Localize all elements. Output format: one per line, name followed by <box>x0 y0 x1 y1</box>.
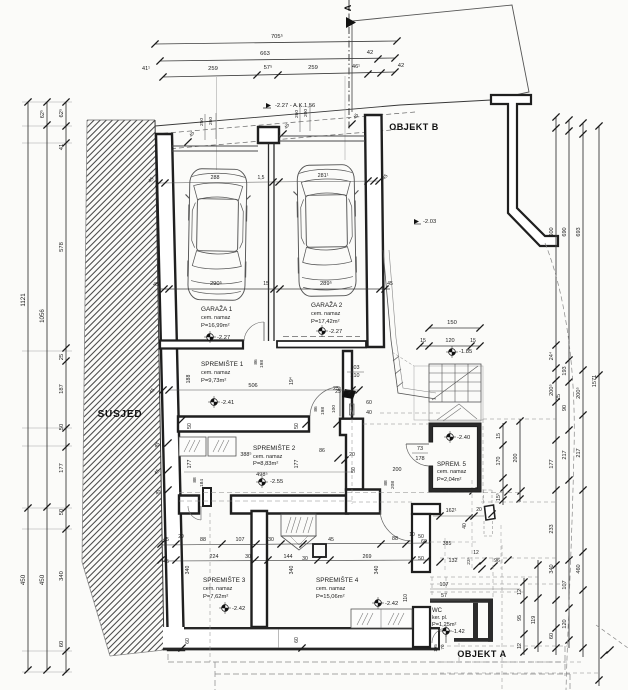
svg-text:P=7,62m²: P=7,62m² <box>203 594 228 600</box>
svg-text:OBJEKT A: OBJEKT A <box>457 649 506 659</box>
svg-text:132: 132 <box>449 558 458 564</box>
svg-text:40: 40 <box>366 410 372 416</box>
svg-text:200: 200 <box>303 109 309 117</box>
svg-text:25: 25 <box>59 354 65 360</box>
svg-text:19⁴: 19⁴ <box>289 377 295 385</box>
svg-text:50: 50 <box>59 509 65 515</box>
svg-text:340: 340 <box>185 566 191 575</box>
svg-text:45: 45 <box>163 559 169 565</box>
svg-text:-2.40: -2.40 <box>457 435 470 441</box>
svg-text:45: 45 <box>153 282 159 288</box>
svg-text:cem. namaz: cem. namaz <box>201 315 231 321</box>
svg-text:289⁵: 289⁵ <box>320 280 333 287</box>
svg-text:50: 50 <box>294 423 300 429</box>
svg-text:224: 224 <box>210 554 219 560</box>
svg-text:60: 60 <box>294 637 300 643</box>
svg-text:200⁵: 200⁵ <box>548 384 555 396</box>
svg-text:250: 250 <box>199 118 205 126</box>
svg-text:70: 70 <box>440 644 445 650</box>
svg-text:450: 450 <box>20 574 27 585</box>
svg-text:177: 177 <box>187 460 193 469</box>
svg-text:42: 42 <box>398 63 404 69</box>
svg-text:10: 10 <box>409 532 415 538</box>
svg-text:340: 340 <box>59 571 65 581</box>
svg-text:OBJEKT B: OBJEKT B <box>389 122 439 132</box>
svg-text:193: 193 <box>562 366 568 375</box>
svg-text:ker. pl.: ker. pl. <box>432 615 447 621</box>
svg-text:P=17,42m²: P=17,42m² <box>311 319 340 325</box>
svg-text:-2.03: -2.03 <box>423 219 436 225</box>
svg-text:178: 178 <box>415 456 424 462</box>
svg-text:15: 15 <box>496 433 502 439</box>
svg-text:SPREMIŠTE 4: SPREMIŠTE 4 <box>316 575 359 584</box>
svg-text:cem. namaz: cem. namaz <box>311 311 341 317</box>
svg-text:62⁵: 62⁵ <box>58 108 65 117</box>
svg-text:45: 45 <box>387 281 393 287</box>
svg-text:46¹: 46¹ <box>352 64 360 70</box>
svg-text:cem. namaz: cem. namaz <box>437 469 467 475</box>
svg-text:177: 177 <box>59 463 65 473</box>
svg-text:-2.27 - A.K.1,56: -2.27 - A.K.1,56 <box>275 103 315 109</box>
svg-text:cem. namaz: cem. namaz <box>203 586 233 592</box>
svg-text:198: 198 <box>259 360 265 368</box>
svg-text:SPREMIŠTE 3: SPREMIŠTE 3 <box>203 575 246 584</box>
svg-text:50: 50 <box>59 424 65 430</box>
svg-text:30: 30 <box>302 556 308 562</box>
svg-text:60: 60 <box>185 638 191 644</box>
svg-text:-2.42: -2.42 <box>232 606 245 612</box>
svg-text:45: 45 <box>328 537 334 543</box>
svg-text:233: 233 <box>549 524 555 533</box>
svg-text:600: 600 <box>549 227 555 236</box>
svg-text:P=15,06m²: P=15,06m² <box>316 594 345 600</box>
svg-text:P=2,04m²: P=2,04m² <box>437 477 462 483</box>
svg-text:705⁵: 705⁵ <box>271 33 284 40</box>
svg-text:50: 50 <box>418 556 424 562</box>
svg-text:200: 200 <box>513 454 519 463</box>
svg-text:119: 119 <box>531 616 537 625</box>
svg-text:-2.41: -2.41 <box>221 400 234 406</box>
svg-text:340: 340 <box>289 566 295 575</box>
svg-text:42: 42 <box>367 50 373 56</box>
svg-text:60: 60 <box>421 539 427 545</box>
svg-text:GARAŽA 2: GARAŽA 2 <box>311 300 343 309</box>
svg-text:-1.85: -1.85 <box>459 349 472 355</box>
svg-text:62⁵: 62⁵ <box>39 110 46 118</box>
svg-text:208: 208 <box>390 481 396 489</box>
svg-text:P=1,25m²: P=1,25m² <box>432 622 457 628</box>
svg-text:60: 60 <box>59 641 65 647</box>
svg-text:340: 340 <box>549 564 555 573</box>
svg-text:P=8,83m²: P=8,83m² <box>253 461 278 467</box>
svg-text:-2.27: -2.27 <box>329 329 342 335</box>
svg-text:290⁵: 290⁵ <box>210 280 223 287</box>
svg-text:GARAŽA 1: GARAŽA 1 <box>201 304 233 313</box>
svg-text:259: 259 <box>308 65 318 71</box>
svg-text:88: 88 <box>383 480 389 486</box>
svg-text:184: 184 <box>199 479 205 487</box>
svg-text:259: 259 <box>208 66 218 72</box>
svg-text:578: 578 <box>59 242 65 252</box>
svg-text:12: 12 <box>473 550 479 556</box>
svg-text:cem. namaz: cem. namaz <box>253 454 283 460</box>
svg-text:P=9,73m²: P=9,73m² <box>201 378 226 384</box>
svg-text:-2.27: -2.27 <box>217 335 230 341</box>
svg-text:86: 86 <box>319 448 325 454</box>
svg-text:30: 30 <box>268 537 274 543</box>
svg-text:107: 107 <box>562 580 568 589</box>
svg-text:30: 30 <box>245 554 251 560</box>
svg-text:210: 210 <box>351 373 360 379</box>
svg-text:198: 198 <box>320 407 326 415</box>
svg-text:690: 690 <box>562 227 568 236</box>
svg-text:506: 506 <box>248 383 257 389</box>
svg-text:340: 340 <box>374 566 380 575</box>
svg-text:663: 663 <box>260 51 270 57</box>
svg-text:460: 460 <box>576 564 582 573</box>
svg-text:693: 693 <box>576 227 582 236</box>
svg-text:15: 15 <box>263 281 269 287</box>
svg-text:450: 450 <box>39 574 46 585</box>
svg-text:-2.55: -2.55 <box>270 479 283 485</box>
svg-text:100: 100 <box>331 405 337 413</box>
svg-text:260: 260 <box>208 117 214 125</box>
svg-text:269: 269 <box>363 554 372 560</box>
svg-text:23⁴: 23⁴ <box>466 557 472 564</box>
svg-text:217: 217 <box>562 450 568 459</box>
svg-text:P=16,99m²: P=16,99m² <box>201 323 230 329</box>
svg-text:1056: 1056 <box>39 309 46 323</box>
svg-text:45: 45 <box>163 537 169 543</box>
svg-text:WC: WC <box>432 608 443 614</box>
svg-text:29: 29 <box>178 534 184 540</box>
svg-text:57⁵: 57⁵ <box>264 64 273 71</box>
svg-text:15: 15 <box>470 338 476 344</box>
svg-text:90: 90 <box>562 405 568 411</box>
svg-text:162¹: 162¹ <box>446 508 457 514</box>
svg-text:88: 88 <box>200 537 206 543</box>
svg-text:120: 120 <box>562 619 568 628</box>
svg-text:86: 86 <box>313 406 319 412</box>
svg-text:217: 217 <box>576 448 582 457</box>
svg-text:73: 73 <box>417 446 423 452</box>
svg-text:1,5: 1,5 <box>258 175 265 181</box>
svg-text:195: 195 <box>433 644 438 652</box>
svg-text:103: 103 <box>351 365 360 371</box>
svg-text:170: 170 <box>496 457 502 466</box>
svg-text:A: A <box>343 4 353 11</box>
svg-text:281¹: 281¹ <box>318 173 329 179</box>
svg-text:cem. namaz: cem. namaz <box>201 370 231 376</box>
svg-text:120: 120 <box>445 338 454 344</box>
svg-text:SPREMIŠTE 2: SPREMIŠTE 2 <box>253 443 296 452</box>
svg-text:260: 260 <box>294 110 300 118</box>
svg-text:188: 188 <box>186 375 192 384</box>
svg-text:177: 177 <box>549 459 555 468</box>
svg-text:60: 60 <box>366 400 372 406</box>
svg-text:187: 187 <box>59 384 65 394</box>
svg-text:200⁵: 200⁵ <box>575 387 582 399</box>
svg-text:107: 107 <box>440 582 449 588</box>
svg-text:200: 200 <box>393 467 402 473</box>
svg-text:SPREM. 5: SPREM. 5 <box>437 461 466 468</box>
svg-text:385: 385 <box>443 541 452 547</box>
svg-text:41¹: 41¹ <box>142 66 150 72</box>
svg-text:107: 107 <box>236 537 245 543</box>
svg-text:41: 41 <box>59 144 65 150</box>
svg-text:150: 150 <box>447 320 457 326</box>
svg-text:40: 40 <box>462 523 468 529</box>
svg-text:177: 177 <box>294 460 300 469</box>
svg-text:24⁴: 24⁴ <box>548 351 555 360</box>
svg-text:-1.42: -1.42 <box>452 629 465 635</box>
svg-text:288: 288 <box>211 175 220 181</box>
svg-text:SPREMIŠTE 1: SPREMIŠTE 1 <box>201 359 244 368</box>
svg-text:SUSJED: SUSJED <box>98 409 143 420</box>
svg-text:144: 144 <box>284 554 293 560</box>
svg-text:60: 60 <box>549 633 555 639</box>
svg-text:50: 50 <box>187 423 193 429</box>
svg-text:88: 88 <box>392 536 398 542</box>
svg-text:15⁵: 15⁵ <box>496 493 502 501</box>
svg-text:388⁵: 388⁵ <box>240 452 251 458</box>
svg-text:110: 110 <box>403 594 409 602</box>
svg-text:15: 15 <box>420 338 426 344</box>
svg-text:25: 25 <box>335 389 341 395</box>
svg-text:95: 95 <box>517 615 523 621</box>
svg-text:-2.42: -2.42 <box>385 601 398 607</box>
svg-text:cem. namaz: cem. namaz <box>316 586 346 592</box>
svg-text:88: 88 <box>192 477 198 483</box>
svg-text:1121: 1121 <box>20 293 27 307</box>
svg-text:86: 86 <box>253 359 259 365</box>
